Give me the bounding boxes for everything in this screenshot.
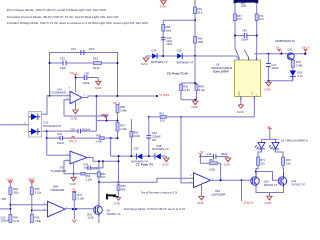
svg-text:2.40k: 2.40k xyxy=(96,140,103,144)
svg-text:SGND: SGND xyxy=(114,204,121,206)
diode array D12 box xyxy=(29,112,42,138)
resistor R43 xyxy=(9,187,20,214)
wire R64 lower xyxy=(194,56,196,83)
svg-text:SGND: SGND xyxy=(265,203,272,205)
svg-text:100nF: 100nF xyxy=(241,37,249,41)
svg-text:BAT54WS-7-F: BAT54WS-7-F xyxy=(151,60,168,64)
power flag 5V (C42) xyxy=(198,151,204,156)
node R61 branch xyxy=(194,19,196,21)
svg-text:R60: R60 xyxy=(133,130,138,134)
wire CV divider bottom rail xyxy=(181,91,197,100)
svg-text:5.10k: 5.10k xyxy=(86,177,93,181)
ground SGND (C38) xyxy=(95,78,102,90)
node R59/R57 xyxy=(110,137,112,139)
wire feedback mid branch xyxy=(50,62,118,64)
svg-text:SGND: SGND xyxy=(160,7,167,9)
wire U7A inverting input xyxy=(50,95,71,97)
svg-text:10.0: 10.0 xyxy=(259,17,265,21)
svg-text:100V: 100V xyxy=(166,42,172,46)
svg-text:SGND: SGND xyxy=(162,165,169,167)
ground SGND (fan) xyxy=(114,198,121,206)
power flag 10V_A (U7A supply) xyxy=(70,72,78,78)
svg-text:MMBT3904LT1G: MMBT3904LT1G xyxy=(275,39,295,43)
node CC row left xyxy=(118,155,120,157)
svg-text:Q9: Q9 xyxy=(107,208,111,212)
wire to left edge xyxy=(0,208,10,210)
svg-text:47pF: 47pF xyxy=(89,47,95,51)
ground SGND (U6A power) xyxy=(197,184,204,205)
resistor R45 xyxy=(30,187,41,214)
shunt resistor R62 xyxy=(234,0,259,8)
capacitor C39 xyxy=(83,161,103,170)
resistor R61 xyxy=(194,7,203,15)
node out b xyxy=(241,179,243,181)
svg-text:20.0: 20.0 xyxy=(160,118,166,122)
diode D14 xyxy=(151,49,168,64)
ground SGND (Q10 Q12) xyxy=(265,196,273,205)
svg-text:1.00k: 1.00k xyxy=(208,167,215,171)
capacitor C33 xyxy=(60,56,66,70)
wire top vertical R61 xyxy=(194,0,196,56)
svg-text:10V_A: 10V_A xyxy=(69,140,77,143)
wire long comparator rail xyxy=(99,178,194,182)
connector fan (black) xyxy=(107,194,119,200)
node U7A inverting xyxy=(49,95,51,97)
svg-text:D16: D16 xyxy=(177,49,182,53)
svg-text:100nF: 100nF xyxy=(83,81,91,85)
resistor R75 xyxy=(291,60,303,70)
capacitor C26 xyxy=(0,215,9,222)
node U7A supply xyxy=(75,77,77,79)
svg-text:Chrg_On: Chrg_On xyxy=(244,202,255,205)
svg-text:Constant Voltage Mode: VOUT=71: Constant Voltage Mode: VOUT=71.4V, when … xyxy=(7,21,148,25)
svg-text:Q10: Q10 xyxy=(264,179,269,183)
svg-text:LMV932IDR: LMV932IDR xyxy=(211,192,225,196)
svg-text:R45: R45 xyxy=(35,187,40,191)
capacitor C47 xyxy=(266,54,279,81)
svg-text:R44: R44 xyxy=(13,215,18,219)
wire sources rail xyxy=(256,187,284,196)
svg-text:9.1V: 9.1V xyxy=(297,74,303,78)
svg-text:SGND: SGND xyxy=(197,203,204,205)
svg-text:510: 510 xyxy=(260,162,265,166)
node D12 row2 xyxy=(46,137,48,139)
resistor R56 xyxy=(116,105,127,121)
transistor Q9 xyxy=(94,205,121,217)
svg-text:100nF: 100nF xyxy=(57,141,65,145)
svg-text:D12: D12 xyxy=(44,120,49,124)
svg-text:3.48k: 3.48k xyxy=(296,64,303,68)
svg-text:R65: R65 xyxy=(166,25,171,29)
wire divider to U6B- xyxy=(10,204,47,206)
ground SGND (CV divider) xyxy=(191,101,198,109)
svg-text:10.0k: 10.0k xyxy=(13,219,20,223)
svg-text:R61: R61 xyxy=(159,112,164,116)
diode D15 xyxy=(152,144,169,159)
svg-text:2N7002-7-F: 2N7002-7-F xyxy=(291,183,305,187)
svg-text:12.4k: 12.4k xyxy=(183,88,190,92)
node out a xyxy=(220,179,222,181)
svg-text:R47: R47 xyxy=(77,193,82,197)
wire D12 top pin to node xyxy=(42,96,50,115)
resistor R47 xyxy=(73,192,85,209)
capacitor C45 xyxy=(235,28,257,41)
wire U7B output xyxy=(87,158,119,183)
transistor Q12 xyxy=(278,172,305,187)
svg-text:5.90k: 5.90k xyxy=(120,108,127,112)
capacitor C42 xyxy=(207,152,229,159)
node C45 right xyxy=(256,35,258,37)
svg-text:SGND: SGND xyxy=(71,119,78,121)
wire Q9 gate xyxy=(65,208,94,210)
wire shunt left leg xyxy=(235,3,239,57)
node VREF a xyxy=(106,120,108,122)
svg-text:D13: D13 xyxy=(134,146,139,150)
svg-text:25.0: 25.0 xyxy=(197,10,203,14)
op-amp U6A xyxy=(194,173,226,197)
wire R47 below xyxy=(73,209,75,219)
node feedback left xyxy=(49,62,51,64)
node U7B gnd cross xyxy=(73,173,75,175)
svg-text:3W: 3W xyxy=(2,197,7,201)
svg-text:107: 107 xyxy=(101,175,106,179)
diode D16 xyxy=(177,49,194,65)
svg-text:Precharge Mode: If VOUT<46.2V,: Precharge Mode: If VOUT<46.2V, set Io to… xyxy=(124,207,185,211)
wire D13 row xyxy=(111,156,167,158)
svg-text:D17 MHL224-AWRG-A: D17 MHL224-AWRG-A xyxy=(281,139,308,143)
svg-text:SGND: SGND xyxy=(141,64,148,66)
wire U8 out xyxy=(149,99,255,117)
node diode row C43 xyxy=(162,55,164,57)
ground SGND (U7B power) xyxy=(70,162,77,186)
svg-text:C32: C32 xyxy=(57,132,62,136)
resistor R52 xyxy=(97,172,106,205)
svg-text:2N7002-7-F: 2N7002-7-F xyxy=(264,183,278,187)
node IO_BIAS end xyxy=(156,95,158,97)
node Q11 rail C47 xyxy=(267,53,269,55)
capacitor C40 xyxy=(146,117,161,156)
svg-text:TL103WAIDR: TL103WAIDR xyxy=(50,91,66,95)
resistor R55 xyxy=(159,112,166,123)
op-amp U7B xyxy=(51,151,88,173)
wire shunt right leg xyxy=(255,3,257,57)
power flag 10V_A (row2) xyxy=(69,136,77,143)
capacitor C35 xyxy=(70,128,91,134)
resistor R64 xyxy=(194,37,204,45)
capacitor C38 xyxy=(83,71,91,85)
wire U6A output xyxy=(211,179,251,181)
svg-text:CC Point 7A: CC Point 7A xyxy=(136,162,153,166)
node Q10 drain xyxy=(255,171,257,173)
svg-text:SGND: SGND xyxy=(191,107,198,109)
wire feedback loop U7A xyxy=(50,53,118,97)
ground SGND (U7A power) xyxy=(71,102,79,121)
wire CC row vertical left xyxy=(110,138,112,156)
svg-text:C45: C45 xyxy=(242,28,247,32)
svg-text:R57: R57 xyxy=(120,123,125,127)
svg-text:C38: C38 xyxy=(84,71,89,75)
svg-text:CV Point 71.4V: CV Point 71.4V xyxy=(167,72,189,76)
svg-text:D18: D18 xyxy=(297,70,302,74)
label R51 xyxy=(87,213,94,220)
power flag 5V (Q11) xyxy=(276,47,281,54)
svg-text:2N7002-7-F: 2N7002-7-F xyxy=(107,212,121,216)
svg-text:56.2k: 56.2k xyxy=(93,66,100,70)
resistor R59 xyxy=(96,134,118,144)
svg-text:Turn off Fan when Io reduce to: Turn off Fan when Io reduce to 0.7A xyxy=(141,191,178,195)
svg-text:Constant Current Mode: 46.2V<V: Constant Current Mode: 46.2V<VOUT<71.4V,… xyxy=(7,15,119,19)
svg-text:10.0: 10.0 xyxy=(237,17,243,21)
svg-text:5.10k: 5.10k xyxy=(35,191,42,195)
wire diode row xyxy=(146,56,239,59)
svg-text:SGND: SGND xyxy=(95,88,102,90)
resistor R65 xyxy=(162,25,172,33)
resistor R71 xyxy=(256,149,266,172)
node diode row R64 xyxy=(194,55,196,57)
capacitor C34 xyxy=(50,47,118,55)
svg-text:BAT54WS-7-F: BAT54WS-7-F xyxy=(177,61,194,65)
node divider 1b xyxy=(9,208,11,210)
wire branch left xyxy=(163,20,195,56)
svg-text:25V: 25V xyxy=(152,138,157,142)
LED D17 a xyxy=(255,142,265,149)
wire INA out to U6A xyxy=(181,117,194,183)
svg-text:5.10k: 5.10k xyxy=(77,196,84,200)
node D12 bottom xyxy=(46,130,48,132)
resistor R57 xyxy=(116,123,127,139)
wire U7B noninverting path xyxy=(64,161,81,174)
transistor Q11 xyxy=(287,47,294,60)
svg-text:100k: 100k xyxy=(198,40,204,44)
wire C38 to ground xyxy=(87,77,99,79)
power flag VOUT xyxy=(6,178,13,187)
wire Q9 source xyxy=(98,217,100,224)
wire VREF rail xyxy=(96,116,117,121)
ground SGND (D14) xyxy=(141,56,149,66)
resistor R42 xyxy=(180,84,191,92)
node Q11 rail right xyxy=(304,53,306,55)
svg-text:R61: R61 xyxy=(197,7,202,11)
resistor R60 xyxy=(130,119,141,156)
node out wire R54 xyxy=(118,160,120,162)
svg-text:BAT54AWT-TP: BAT54AWT-TP xyxy=(44,124,62,128)
svg-text:R66: R66 xyxy=(209,158,214,162)
node output / feedback xyxy=(117,95,119,97)
svg-text:2.00k: 2.00k xyxy=(133,134,140,138)
svg-text:C39: C39 xyxy=(83,163,88,167)
resistor R66 xyxy=(200,157,220,181)
svg-text:R64: R64 xyxy=(198,37,203,41)
node U7B out b xyxy=(102,160,104,162)
svg-text:C35: C35 xyxy=(70,128,75,132)
node divider 1a xyxy=(9,204,11,206)
node C40 rail xyxy=(148,116,150,118)
wire zener bottom rail xyxy=(268,80,292,82)
svg-text:C33: C33 xyxy=(60,56,65,60)
svg-text:SGND: SGND xyxy=(70,184,77,186)
svg-text:SGND: SGND xyxy=(264,90,271,92)
resistor R44 xyxy=(9,215,20,223)
node CC row mid xyxy=(130,155,132,157)
wire cap row 1 xyxy=(47,130,97,132)
node U6B out b xyxy=(75,208,77,210)
node rail R52 xyxy=(98,181,100,183)
node CC row C40 xyxy=(148,155,150,157)
resistor R54 xyxy=(117,161,126,196)
power flag 10V_A (Q11) xyxy=(302,47,310,54)
svg-text:0.01: 0.01 xyxy=(241,4,247,8)
op-amp U7A xyxy=(50,87,82,104)
wire U7B inverting input xyxy=(47,154,70,156)
resistor R50 xyxy=(81,172,98,181)
svg-text:C42: C42 xyxy=(207,152,212,156)
svg-text:BAT54WS-7-F: BAT54WS-7-F xyxy=(152,147,169,151)
ground SGND (Q11) xyxy=(264,81,271,92)
wire Q11 rail xyxy=(254,53,306,55)
svg-text:R46: R46 xyxy=(35,215,40,219)
wire CC to out wire xyxy=(118,156,120,161)
svg-text:301k: 301k xyxy=(13,191,19,195)
node C45 left xyxy=(234,35,236,37)
svg-text:100nF: 100nF xyxy=(271,66,279,70)
wire pin1 diagonal xyxy=(244,49,248,57)
node CV gnd xyxy=(194,99,196,101)
svg-text:Pre-Charge Mode: VOUT<46.2V, I: Pre-Charge Mode: VOUT<46.2V, Iout0.7A Re… xyxy=(7,8,107,12)
node U6B out xyxy=(72,208,74,210)
svg-text:R72: R72 xyxy=(286,158,291,162)
power flag 5V (R47) xyxy=(72,189,76,193)
node output vertical xyxy=(95,95,97,97)
svg-text:VREF: VREF xyxy=(101,113,109,117)
ground SGND (top) xyxy=(160,1,167,9)
wire U7A noninverting input xyxy=(64,100,107,121)
node U7B out a xyxy=(98,160,100,162)
node feedback right xyxy=(117,62,119,64)
diode D12 top xyxy=(29,114,40,121)
node CV rail xyxy=(194,82,196,84)
capacitor C43 xyxy=(161,36,173,46)
node INA out junction xyxy=(180,116,182,118)
svg-text:R48: R48 xyxy=(199,84,204,88)
svg-text:10.0k: 10.0k xyxy=(87,216,94,220)
ground SGND (D13) xyxy=(162,158,169,167)
svg-text:13pF: 13pF xyxy=(60,66,66,70)
wire input from left edge xyxy=(0,124,29,126)
diode D12 bottom xyxy=(29,128,40,135)
svg-text:499: 499 xyxy=(121,187,126,191)
node rail R54 xyxy=(118,181,120,183)
node 5V C42 xyxy=(199,156,201,158)
svg-text:Q12: Q12 xyxy=(291,179,296,183)
wire U7A supply xyxy=(76,78,85,93)
resistor R46 xyxy=(30,215,41,223)
power flag VREF xyxy=(28,178,35,187)
LED D17 b xyxy=(269,142,279,149)
wire C42 row xyxy=(200,156,228,158)
wire U7A output xyxy=(82,96,157,131)
power flag bottom cut xyxy=(72,220,76,223)
svg-text:100nF: 100nF xyxy=(221,152,229,156)
op-amp U6B xyxy=(48,184,66,217)
svg-text:D14: D14 xyxy=(152,49,157,53)
svg-text:100k: 100k xyxy=(166,28,172,32)
wire cap row 2 xyxy=(47,137,100,139)
wire Q12 gate jog xyxy=(256,172,279,181)
resistor R67 xyxy=(234,14,243,21)
node 5V Q11 xyxy=(280,53,282,55)
zener D18 xyxy=(290,70,303,81)
svg-text:R59: R59 xyxy=(96,134,101,138)
node 10V_A Q11 xyxy=(304,53,306,55)
svg-text:R71: R71 xyxy=(260,158,265,162)
svg-text:R75: R75 xyxy=(296,60,301,64)
resistor R72 xyxy=(276,149,292,172)
svg-text:R56: R56 xyxy=(120,105,125,109)
label D12 xyxy=(44,120,62,127)
svg-text:Q11: Q11 xyxy=(288,47,293,51)
svg-text:R42: R42 xyxy=(183,84,188,88)
svg-text:U6B: U6B xyxy=(53,184,58,188)
wire D12 bottom pin xyxy=(42,131,47,155)
svg-text:510: 510 xyxy=(286,162,291,166)
svg-text:100nF: 100nF xyxy=(91,167,99,171)
svg-text:SGND: SGND xyxy=(224,164,231,166)
resistor R63 xyxy=(93,56,102,70)
svg-text:SGND: SGND xyxy=(237,112,244,114)
power flag 5V (LED) xyxy=(267,126,271,129)
resistor R48 xyxy=(195,84,206,92)
ground GND (U8) xyxy=(237,101,244,114)
svg-text:Gain 10V/V: Gain 10V/V xyxy=(213,70,230,74)
node divider 2 xyxy=(31,209,33,211)
svg-text:IO_BIAS: IO_BIAS xyxy=(160,94,170,97)
pin numbers U8 top xyxy=(238,63,257,65)
transistor Q10 xyxy=(251,172,278,187)
svg-text:R43: R43 xyxy=(13,187,18,191)
svg-text:5.11k: 5.11k xyxy=(199,88,206,92)
node R57 bottom xyxy=(117,137,119,139)
node zener rail xyxy=(267,80,269,82)
svg-text:R63: R63 xyxy=(93,56,98,60)
svg-text:1000uF: 1000uF xyxy=(82,128,91,132)
svg-text:1000uF: 1000uF xyxy=(0,218,9,222)
svg-text:7.50k: 7.50k xyxy=(35,219,42,223)
wire divider to U6B+ xyxy=(32,209,48,211)
capacitor C32 xyxy=(57,132,65,145)
wire CV divider top rail xyxy=(181,83,197,85)
op-amp U8 INA240 box xyxy=(211,58,261,101)
wire LED feed xyxy=(262,129,278,143)
svg-text:U6A: U6A xyxy=(215,189,220,193)
svg-text:C34: C34 xyxy=(71,47,76,51)
node VREF b xyxy=(117,120,119,122)
svg-text:LMV932IDR: LMV932IDR xyxy=(50,188,64,192)
resistor R70 xyxy=(255,14,264,21)
svg-text:2.40k: 2.40k xyxy=(120,127,127,131)
ground SGND (C42) xyxy=(224,157,231,167)
wire to net label xyxy=(241,180,243,201)
diode D13 xyxy=(131,146,148,163)
